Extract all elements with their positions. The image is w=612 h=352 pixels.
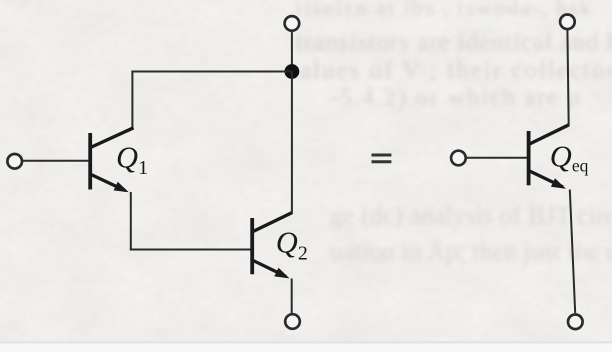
terminal top right (collector) [560,14,575,29]
junction node dot [285,64,300,79]
faint bleed-through text row F [330,237,612,267]
wire top terminal to junction [291,32,293,66]
wire top horizontal [131,71,292,73]
wire Q2 emitter vertical [291,279,293,315]
transistor Q1 collector slant [91,128,134,148]
transistor Qeq collector slant [530,125,569,144]
terminal bottom (emitter) [285,314,300,329]
transistor Q2 collector slant [253,213,292,232]
terminal base input [7,154,22,169]
svg-text:Q1: Q1 [116,141,148,179]
transistor Q2 emitter slant [253,261,286,277]
wire Q1 emitter vertical [130,192,132,251]
bottom scan strip divider [0,341,612,344]
svg-text:Qeq: Qeq [550,140,589,176]
terminal top (collector) [285,16,300,31]
transistor Q1 base bar [88,133,92,190]
wire Qeq collector vertical [567,29,568,127]
transistor Q2 base bar [250,218,254,274]
terminal base input right [451,151,466,166]
bottom scan strip [0,344,612,352]
wire Q2 base horizontal [130,249,251,251]
faint bleed-through text row C [300,57,612,85]
wire Q1 base [22,160,90,162]
wire Qeq emitter lead [570,190,575,314]
terminal bottom right (emitter) [568,315,583,330]
transistor Qeq emitter arrowhead [551,178,566,189]
faint bleed-through text row B [296,29,612,57]
faint bleed-through text row D [330,85,582,112]
wire Q1 collector vertical [131,71,133,130]
wire Qeq base [467,157,528,159]
transistor Q1 emitter slant [91,175,125,191]
transistor Q1 emitter arrowhead [114,182,129,193]
faint bleed-through text row E [330,201,612,231]
svg-text:Q2: Q2 [276,225,308,264]
equals sign [372,154,392,157]
transistor Q2 emitter arrowhead [274,268,289,279]
faint bleed-through text row A [296,0,593,21]
wire Q2 collector vertical [291,72,293,214]
transistor Qeq base bar [527,131,531,185]
transistor Qeq emitter slant [530,171,564,187]
